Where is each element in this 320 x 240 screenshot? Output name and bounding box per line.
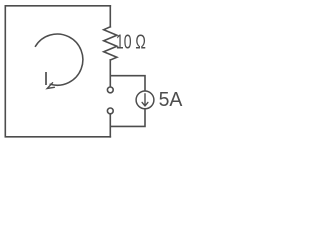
loop current arrow (arc) <box>36 34 83 85</box>
resistor 10Ω <box>104 27 117 60</box>
svg-text:I: I <box>43 69 48 89</box>
wire : lower terminal down to bottom edge <box>109 114 111 137</box>
loop current arrowhead <box>47 83 54 89</box>
wire : resistor bottom to upper terminal <box>109 60 111 87</box>
node : lower terminal (open circle) <box>107 108 113 114</box>
node : upper terminal (open circle) <box>107 87 113 93</box>
svg-text:10 Ω: 10 Ω <box>116 31 146 54</box>
wire : current source bottom to lower branch <box>110 109 145 127</box>
svg-text:5A: 5A <box>159 89 183 111</box>
wire : top right vertical to resistor <box>109 6 111 27</box>
current source circle <box>136 91 154 109</box>
current source arrow (down) <box>142 94 148 106</box>
wire : outer loop (top, left, bottom sides) <box>5 6 110 137</box>
wire : top branch to current source <box>110 76 145 91</box>
